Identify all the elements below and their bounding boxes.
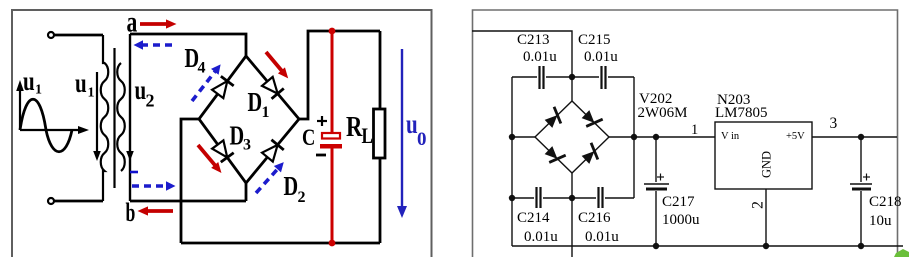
capacitor C bottom junction dot — [329, 240, 336, 247]
source sine wave — [20, 99, 72, 152]
wire: C215 left stub — [572, 76, 599, 78]
wire: AC input from left border — [472, 31, 572, 101]
transformer core — [113, 48, 115, 188]
junction node right vertex — [631, 134, 637, 140]
svg-text:+5V: +5V — [786, 131, 805, 142]
capacitor C214 — [537, 187, 541, 208]
svg-text:0.01u: 0.01u — [584, 49, 618, 65]
capacitor C213 — [540, 66, 544, 89]
source sine axis horizontal — [20, 126, 89, 134]
wire: C214 to junction — [543, 197, 572, 199]
svg-text:D: D — [248, 88, 263, 117]
svg-text:0.01u: 0.01u — [523, 49, 557, 65]
secondary current arrow — [126, 151, 134, 161]
C217 plus sign — [657, 174, 664, 181]
bridge diode upper-right — [580, 108, 603, 131]
svg-text:D: D — [284, 172, 299, 201]
wire: right vertical rail — [633, 77, 635, 198]
svg-text:R: R — [346, 110, 363, 142]
wire: secondary bottom to bridge bottom vertex — [130, 200, 246, 203]
svg-text:LM7805: LM7805 — [715, 105, 768, 121]
wire: RL to bottom rail — [379, 158, 382, 243]
svg-text:1: 1 — [88, 86, 95, 101]
wire: top rail to RL — [379, 31, 382, 109]
capacitor C bottom plate — [320, 144, 342, 149]
wire: bottom ground rail — [512, 245, 903, 247]
left panel frame — [12, 10, 432, 257]
wire: left vertical rail — [511, 77, 513, 246]
svg-text:1000u: 1000u — [662, 212, 700, 228]
svg-text:1: 1 — [35, 83, 42, 98]
node a blue dashed return arrow — [134, 40, 173, 50]
capacitor C217 plates — [644, 183, 669, 185]
svg-text:C: C — [302, 124, 315, 151]
svg-text:1: 1 — [262, 104, 270, 121]
svg-text:u: u — [135, 76, 147, 106]
green mark bottom right — [894, 249, 909, 257]
wire: bridge bottom vertex down — [571, 173, 573, 257]
transformer secondary winding — [117, 63, 125, 171]
u0 output arrow — [397, 49, 407, 218]
svg-text:C217: C217 — [662, 194, 695, 210]
bottom rail wire — [181, 242, 380, 245]
wire: C213 left stub — [512, 76, 537, 78]
junction node C217 bottom — [653, 243, 659, 249]
u2 minus polarity mark — [130, 171, 138, 174]
bridge diode lower-left — [543, 144, 566, 167]
wire: C214 left stub — [512, 197, 534, 199]
node b red current arrow — [138, 206, 174, 215]
capacitor C top junction dot — [329, 28, 336, 35]
svg-text:D: D — [230, 122, 245, 151]
svg-text:2: 2 — [146, 91, 155, 111]
transformer primary terminal top — [48, 32, 54, 38]
wire: C216 left stub — [572, 197, 596, 199]
wire: C217 top lead — [655, 137, 657, 182]
svg-text:0: 0 — [417, 129, 427, 150]
svg-text:L: L — [362, 124, 373, 149]
svg-text:u: u — [75, 69, 87, 99]
secondary lead wire — [129, 34, 131, 201]
capacitor C top plate — [322, 133, 340, 139]
D1 red current arrow — [262, 49, 291, 81]
D3 red current arrow — [194, 142, 225, 176]
svg-text:V in: V in — [721, 131, 740, 142]
wire: top terminal to primary — [54, 34, 103, 37]
wire: bridge right vertex — [609, 136, 634, 138]
wire: primary bottom to terminal — [54, 200, 103, 203]
wire: main output to regulator — [634, 136, 715, 138]
D2 blue dashed arrow — [252, 159, 287, 196]
wire: secondary top to bridge apex — [130, 34, 246, 56]
bridge diamond wires — [199, 56, 299, 183]
capacitor C215 — [602, 66, 606, 89]
wire: C216 right stub — [605, 197, 634, 199]
junction node C218 top — [858, 134, 864, 140]
svg-text:2W06M: 2W06M — [638, 105, 688, 121]
source sine axis vertical — [16, 80, 24, 130]
wire: bridge right vertex to plus rail — [299, 31, 380, 119]
svg-text:3: 3 — [243, 137, 251, 154]
wire: bridge left vertex — [512, 136, 535, 138]
wire: C218 top lead — [860, 137, 862, 182]
wire: bridge left vertex to minus rail — [181, 119, 199, 243]
resistor RL body — [374, 109, 386, 158]
svg-text:4: 4 — [198, 60, 206, 77]
diode D2 — [261, 140, 284, 163]
svg-text:0.01u: 0.01u — [585, 229, 619, 245]
diode D1 — [261, 76, 284, 99]
svg-text:C213: C213 — [517, 32, 550, 48]
capacitor minus sign — [316, 154, 326, 157]
svg-text:2: 2 — [298, 189, 306, 206]
capacitor C218 plates — [850, 183, 872, 185]
bridge bottom vertex stub — [245, 183, 248, 201]
bridge diode lower-right — [580, 143, 603, 166]
svg-text:u: u — [406, 110, 418, 140]
wire: GND pin lead — [765, 189, 767, 246]
svg-text:10u: 10u — [869, 213, 892, 229]
junction node GND rail — [763, 243, 769, 249]
svg-text:GND: GND — [760, 151, 774, 178]
junction node C217 top — [653, 134, 659, 140]
junction node C213-C215 — [569, 74, 575, 80]
wire: C218 bottom lead — [860, 191, 862, 246]
svg-text:u: u — [23, 67, 35, 97]
wire: C215 right stub — [608, 76, 634, 78]
transformer primary terminal bottom — [48, 198, 54, 204]
svg-text:3: 3 — [830, 115, 838, 132]
transformer primary winding — [101, 35, 109, 201]
svg-text:1: 1 — [691, 122, 698, 138]
primary current arrow — [93, 72, 101, 161]
regulator N203 box — [715, 122, 812, 189]
node a red current arrow — [140, 19, 177, 28]
junction node C214 left — [509, 195, 515, 201]
svg-text:C216: C216 — [578, 210, 611, 226]
svg-text:C218: C218 — [869, 194, 902, 210]
capacitor C216 — [599, 187, 603, 208]
svg-text:0.01u: 0.01u — [524, 229, 558, 245]
junction node C218 bottom — [858, 243, 864, 249]
capacitor plus sign — [317, 116, 327, 126]
capacitor C red wire bottom — [331, 148, 334, 243]
junction node left vertex — [509, 134, 515, 140]
wire: C217 bottom lead — [655, 191, 657, 246]
diode D4 — [211, 76, 233, 98]
bridge diode upper-left — [543, 107, 566, 130]
right panel frame — [473, 10, 898, 257]
node b blue dashed arrow — [132, 181, 176, 191]
junction node bridge bottom — [569, 195, 575, 201]
bridge V202 diamond — [535, 101, 609, 173]
capacitor C red wire top — [331, 31, 334, 133]
wire: C213 to junction — [546, 76, 572, 78]
svg-text:C215: C215 — [578, 32, 611, 48]
diode D3 — [211, 140, 233, 162]
C218 plus sign — [863, 174, 870, 181]
svg-text:C214: C214 — [517, 210, 550, 226]
D4 blue dashed arrow — [188, 61, 224, 104]
wire: regulator output — [812, 136, 897, 138]
svg-text:2: 2 — [750, 201, 767, 209]
